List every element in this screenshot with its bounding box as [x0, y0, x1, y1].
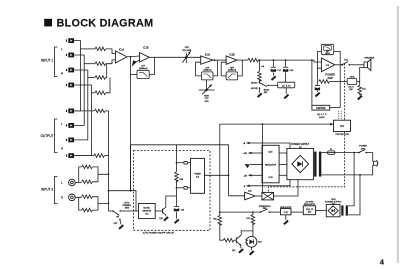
wire bus input1 to output pin1 — [74, 41, 80, 111]
svg-text:(12dB/oct): (12dB/oct) — [228, 69, 237, 72]
fuse F1 — [328, 151, 335, 154]
resistor output sense L — [95, 109, 106, 113]
wire NFB resistor to output column — [330, 81, 341, 83]
node mix L — [108, 173, 110, 175]
wire Q11 to relay coil — [255, 195, 262, 197]
op-amp IC2A — [201, 56, 213, 64]
svg-text:Q10: Q10 — [159, 218, 162, 220]
sub power supply box — [326, 204, 340, 216]
trunk A vertical — [219, 124, 221, 215]
jack output pin4 — [66, 153, 74, 158]
wire limiter left riser — [311, 60, 313, 105]
OUTPUT bracket — [55, 119, 58, 153]
svg-text:Q5, 4, 7, 8: Q5, 4, 7, 8 — [317, 114, 327, 116]
switch OFF contact — [119, 219, 121, 225]
svg-text:D4,25: D4,25 — [319, 117, 325, 119]
timer box IC5 — [191, 158, 205, 193]
svg-text:POWER: POWER — [359, 146, 367, 148]
regulator box — [262, 145, 279, 183]
svg-text:SW1: SW1 — [263, 208, 267, 210]
wire bus input1 to output pin2 — [74, 55, 84, 125]
svg-text:R11: R11 — [362, 88, 365, 90]
svg-text:VOLUME: VOLUME — [182, 50, 192, 52]
node IC2A output — [214, 59, 216, 61]
svg-text:POWER SUPPLY: POWER SUPPLY — [291, 144, 310, 146]
svg-text:C46: C46 — [181, 209, 184, 211]
svg-text:Q12: Q12 — [232, 250, 236, 252]
svg-text:D19: D19 — [258, 242, 261, 244]
resistor input2 row2 — [82, 180, 93, 184]
speaker — [364, 59, 371, 70]
svg-text:Q20: Q20 — [349, 89, 353, 91]
power supply box — [287, 148, 314, 179]
wire to IC1A non-inverting input — [107, 60, 116, 64]
svg-text:LIMITER: LIMITER — [316, 107, 326, 110]
wire IC12 to ground — [285, 215, 287, 220]
svg-text:(24dB/oct): (24dB/oct) — [139, 67, 148, 70]
op-amp IC2B — [226, 56, 237, 64]
wire IC2B feedback down — [221, 62, 226, 76]
resistor input2 row4 — [82, 208, 93, 212]
node timer upper — [176, 162, 178, 164]
capacitor C16 — [283, 67, 288, 72]
wire sub supply to stby regulator — [316, 210, 327, 212]
jack output pin3 — [66, 138, 74, 143]
filter box LPF2 — [201, 72, 213, 80]
node music feed — [130, 190, 132, 192]
node C16 — [285, 59, 287, 61]
svg-text:MUSIC: MUSIC — [143, 208, 150, 210]
relay mechanical dashed link — [268, 64, 344, 193]
svg-text:BASS: BASS — [264, 89, 270, 92]
ground Q12 emitter — [238, 248, 244, 253]
wire relay coil to -B rail — [274, 180, 299, 196]
wire C17 to ground — [272, 72, 274, 75]
node trunk A standby junction — [219, 211, 221, 213]
resistor input2 row1 — [82, 165, 93, 169]
wire LPF1 input tap — [131, 74, 138, 76]
page right edge shade — [397, 6, 399, 263]
wire C16 branch — [285, 60, 287, 67]
node mix B+ branch — [259, 59, 261, 61]
op-amp IC1B — [140, 53, 150, 62]
svg-text:PROTECTION: PROTECTION — [336, 134, 350, 136]
wire to resistor R3 — [88, 77, 95, 79]
resistor R3 — [95, 76, 106, 80]
AC plug — [373, 160, 378, 166]
svg-text:INPUT 2: INPUT 2 — [41, 188, 53, 192]
wire bus input1 to output pin3 — [74, 70, 88, 140]
svg-text:A.BUZ: A.BUZ — [350, 76, 355, 79]
wire IC1B output to volume — [149, 56, 200, 58]
wire IC2B output to mix — [237, 59, 248, 61]
potentiometer VR2 — [182, 51, 191, 63]
svg-text:R60: R60 — [180, 179, 183, 181]
wire Q box to ground — [285, 88, 287, 94]
resistor mix — [248, 58, 259, 62]
ground C17 — [271, 76, 277, 81]
wire input2 L to resistors — [75, 167, 82, 183]
regulator rail -B — [243, 180, 290, 188]
protection box IC3 — [334, 120, 351, 131]
regulator rail +15V — [243, 152, 262, 155]
wire timer output — [205, 174, 229, 176]
svg-text:IC3: IC3 — [340, 125, 344, 128]
wire regulator to supply row2 — [279, 164, 287, 166]
timer input terminal lower — [177, 187, 191, 190]
wire input2 L pair tie — [92, 167, 108, 182]
transformer main — [314, 152, 321, 177]
filter box HPF — [226, 72, 238, 80]
wire R2/R3 junction — [106, 64, 107, 78]
resistor R4 — [95, 91, 106, 95]
wire fuse to power switch — [335, 152, 359, 154]
regulator rail -15V — [243, 174, 262, 177]
wire PC1 to ground — [251, 247, 253, 250]
capacitor NFB — [315, 86, 320, 91]
wire NFB box right to output — [334, 51, 341, 64]
rectifier diamond main — [292, 155, 309, 172]
ground movie — [257, 93, 263, 98]
wire speaker sense drop — [360, 67, 364, 85]
wire resistor to MUSIC contact — [259, 79, 261, 82]
resistor R60 — [175, 172, 179, 182]
wire bus input1 to output pin4 — [74, 85, 91, 156]
wire C17 branch — [272, 60, 274, 67]
jack input1 pin2 — [66, 53, 74, 58]
wire NFB cap to ground — [316, 91, 318, 92]
wire to resistor R4 — [91, 92, 95, 94]
switch POWER SW — [358, 150, 367, 154]
resistor speaker sense — [358, 85, 362, 95]
wire NFB box left to inverting input — [317, 51, 321, 81]
svg-text:MUSIC: MUSIC — [251, 82, 258, 84]
svg-text:Q16: Q16 — [308, 212, 311, 214]
dotted sense wires into protection — [339, 111, 342, 120]
transformer sub — [341, 205, 348, 215]
transistor Q10 — [163, 207, 166, 216]
svg-text:R: R — [61, 72, 63, 76]
wire regulator to supply row1 — [279, 152, 287, 154]
svg-text:POWER: POWER — [325, 72, 335, 76]
node timer output on trunk — [228, 174, 230, 176]
svg-text:MOVIE: MOVIE — [251, 88, 258, 90]
wire IC2A to IC2B — [213, 59, 226, 61]
svg-text:IC10, 13: IC10, 13 — [306, 209, 313, 211]
wire zobel left — [340, 80, 347, 82]
svg-text:AUTO POWER ON/OFF CIRCUIT: AUTO POWER ON/OFF CIRCUIT — [143, 232, 175, 235]
ground C46 — [174, 219, 180, 224]
capacitor C46 — [174, 207, 179, 212]
regulator rail gnd pennant — [245, 164, 263, 168]
transistor Q12 — [234, 235, 241, 248]
standby regulator box — [303, 206, 315, 215]
wire input2 R pair tie — [92, 197, 108, 210]
resistor R16 — [218, 215, 222, 225]
svg-text:TIMER: TIMER — [194, 174, 201, 176]
ground Q10 — [163, 216, 169, 221]
wire input2 R to resistors — [75, 197, 82, 210]
node IC1A output — [130, 56, 132, 58]
switch MUSIC/MOVIE — [259, 82, 267, 89]
RCA jack input2 L — [69, 179, 76, 186]
node timer lower — [176, 187, 178, 189]
box Q7,8,10 — [278, 82, 295, 88]
wire output row4 sense — [74, 155, 94, 157]
potentiometer VR3 high cut — [199, 84, 215, 94]
node limiter tap — [311, 59, 313, 61]
wire relay to speaker — [349, 64, 364, 66]
wire trunk from IC1A output down — [130, 57, 132, 191]
wire C46 to ground — [176, 212, 178, 219]
svg-text:BLOCK DIAGRAM: BLOCK DIAGRAM — [57, 17, 154, 29]
wire sub tap bottom down — [348, 175, 360, 215]
wire standby line left — [220, 211, 261, 213]
wire limiter to output column — [330, 107, 341, 109]
wire sub tap top down — [348, 153, 354, 206]
rectifier diamond sub — [328, 206, 338, 215]
resistor R2 — [95, 62, 106, 66]
wire sense R to trunk — [105, 155, 109, 157]
svg-text:D5: D5 — [299, 147, 301, 149]
resistor input2 row3 — [82, 195, 93, 199]
filter box power amp NFB — [321, 44, 333, 54]
wire IC1A output — [127, 55, 140, 58]
arrowhead into IC3 — [330, 123, 333, 126]
title bullet square — [44, 19, 52, 27]
wire R16 to base resistor — [220, 224, 224, 241]
svg-text:R17: R17 — [247, 218, 250, 220]
relay contact RL1 — [342, 62, 350, 66]
svg-text:(12dB/oct): (12dB/oct) — [203, 69, 212, 72]
svg-text:R: R — [61, 195, 63, 199]
switch AUTO STANDBY — [112, 210, 136, 215]
node sub supply tap top — [353, 152, 355, 154]
wire zobel right — [357, 80, 360, 82]
wire LPF2 output up — [213, 60, 218, 76]
wire mix line to power amp — [259, 60, 322, 62]
svg-text:D21: D21 — [332, 204, 335, 206]
wire sense resistor to ground — [359, 93, 361, 95]
svg-text:IC2B: IC2B — [229, 53, 235, 56]
svg-text:Q7, 8, 10: Q7, 8, 10 — [282, 85, 291, 87]
wire switch arm to Q box — [267, 84, 278, 86]
wire music feed lateral — [109, 191, 139, 211]
wire IC2A feedback down — [196, 62, 202, 76]
svg-text:NR04: NR04 — [325, 53, 329, 55]
svg-text:INPUT 1: INPUT 1 — [41, 59, 53, 63]
svg-text:R: R — [61, 147, 63, 151]
svg-text:IC1A: IC1A — [119, 48, 125, 51]
wire C16 down to Q box — [285, 72, 287, 82]
wire AC top to fuse — [321, 152, 327, 154]
svg-text:SPEAKER: SPEAKER — [364, 57, 374, 60]
node C17 — [273, 59, 275, 61]
dashed box auto power circuit — [133, 151, 210, 231]
ground OFF — [118, 224, 124, 229]
timer input terminal upper — [177, 161, 191, 164]
svg-text:AMP: AMP — [327, 76, 333, 80]
resistor output sense R — [94, 154, 105, 158]
wire NFB cap branch — [316, 82, 318, 86]
wire high-cut tap — [206, 80, 208, 90]
jack input1 pin1 — [66, 38, 74, 43]
svg-text:SW3: SW3 — [125, 207, 129, 209]
svg-text:R16: R16 — [213, 219, 216, 221]
ground Q box — [284, 94, 290, 99]
node mix R — [108, 203, 110, 205]
relay coil RL1 — [262, 192, 274, 200]
svg-text:REGULATOR: REGULATOR — [265, 163, 277, 166]
wire standby line — [269, 211, 280, 213]
svg-text:IC12: IC12 — [284, 212, 288, 214]
node protection/relay-drive — [262, 123, 264, 125]
wire to resistor R1 — [81, 48, 96, 50]
op-amp IC1A — [115, 51, 127, 63]
resistor R17 — [251, 215, 255, 225]
svg-text:F1: F1 — [330, 149, 332, 151]
svg-text:IC2A: IC2A — [205, 53, 211, 56]
wire LPF1 output up to signal line — [149, 57, 154, 74]
wire R17 to PC1 — [252, 212, 254, 236]
filter box LPF1 — [137, 70, 149, 78]
wire R1 to IC1A inverting input — [106, 49, 116, 54]
wire stby regulator to IC12 regulator — [291, 211, 303, 213]
switch STANDBY/ON — [260, 209, 270, 213]
wire R3/R4 junction — [106, 78, 110, 93]
node power amp output — [341, 64, 343, 66]
trunk B vertical to relay drive — [262, 124, 264, 192]
regulator box IC12 — [281, 209, 292, 215]
INPUT 2 bracket — [55, 177, 58, 204]
trunk C from preamp to timer drive — [131, 145, 229, 196]
ground speaker sense — [357, 95, 363, 100]
RCA jack input2 R — [69, 194, 76, 201]
svg-text:POWER SUPPLY: POWER SUPPLY — [325, 202, 342, 204]
wire output column down — [339, 65, 341, 108]
resistor power amp NFB — [319, 80, 330, 84]
regulator rail +B — [243, 142, 290, 149]
wire IC4 output — [155, 210, 162, 212]
ground IC12 — [283, 220, 289, 225]
wire sense L to trunk — [105, 110, 108, 112]
music sensor box IC4 — [139, 204, 156, 219]
wire trunk to auto standby switch — [109, 210, 113, 212]
wire to resistor R2 — [84, 63, 95, 65]
resistor music pull — [258, 71, 262, 81]
wire switch to plug — [366, 153, 373, 162]
wire protection control line — [220, 123, 331, 125]
svg-text:SENSOR: SENSOR — [142, 211, 151, 213]
wire Q10 collector to sense column — [166, 196, 177, 207]
wire Q12 collector to PC1 — [241, 231, 253, 235]
muting LED arrow at IC1B input — [132, 60, 140, 67]
photocoupler PC1 — [245, 236, 257, 247]
svg-text:SUB: SUB — [331, 199, 336, 201]
wire plug bottom AC line — [321, 165, 372, 175]
wire timer sense column — [176, 145, 178, 172]
ground PC1 — [249, 250, 255, 255]
jack input1 pin4 — [66, 83, 74, 88]
node music feed trunk — [108, 190, 110, 192]
wire down to music/movie resistor — [259, 60, 261, 71]
jack input1 pin3 — [66, 68, 74, 73]
wire HPF output up — [238, 60, 243, 76]
resistor Q12 base — [223, 238, 234, 242]
svg-text:OUTPUT: OUTPUT — [40, 134, 53, 138]
op-amp POWER AMP — [321, 58, 334, 72]
wire R60 to C46 — [176, 180, 178, 206]
wire timer to Q11 — [229, 195, 245, 197]
resistor R1 — [95, 47, 106, 51]
driver triangle Q11 — [245, 192, 256, 200]
wire MOVIE to ground — [259, 88, 261, 93]
wire regulator to supply row3 — [279, 174, 287, 176]
node sub supply tap bottom — [359, 174, 361, 176]
wire power amp output — [335, 64, 342, 66]
wire output row1 sense — [74, 110, 94, 112]
svg-text:REGULATOR: REGULATOR — [280, 206, 292, 209]
node R17 tap — [252, 211, 254, 213]
trunk sense vertical — [108, 111, 110, 211]
svg-text:REGULATOR: REGULATOR — [304, 203, 316, 206]
svg-text:IC1B: IC1B — [143, 46, 149, 49]
ground NFB cap — [315, 92, 321, 97]
INPUT 1 bracket — [55, 47, 58, 77]
jack output pin1 — [66, 109, 74, 114]
zobel box — [347, 78, 357, 84]
capacitor C17 — [271, 67, 276, 72]
limiter box — [312, 105, 330, 110]
jack output pin2 — [66, 123, 74, 128]
